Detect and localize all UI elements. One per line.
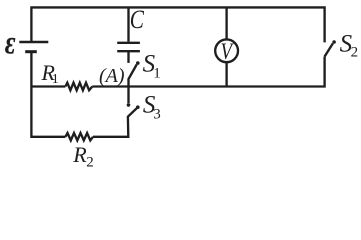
svg-text:Ɛ: Ɛ	[5, 33, 16, 59]
voltmeter V circle	[215, 39, 238, 62]
svg-text:1: 1	[153, 66, 161, 82]
resistor R2 zigzag	[65, 133, 93, 140]
switch S2 arm	[325, 43, 333, 56]
svg-text:(A): (A)	[99, 65, 125, 87]
svg-text:3: 3	[153, 106, 161, 122]
wire right rail lower (S2 to middle rail) + middle rail right segment	[92, 57, 324, 87]
switch S1 arm and wire down to S3 fixed contact	[129, 65, 137, 104]
switch S2 contact dot	[332, 40, 336, 44]
battery E short plate	[25, 50, 37, 53]
resistor R1 zigzag	[65, 83, 92, 91]
wire voltmeter branch top stub	[225, 7, 227, 39]
switch S3 fixed contact dot	[127, 103, 131, 107]
capacitor C bottom plate	[117, 50, 140, 52]
svg-text:R: R	[72, 142, 87, 167]
wire voltmeter branch bottom stub	[225, 62, 227, 86]
wire middle rail left segment	[31, 85, 65, 87]
switch S3 arm, wire to bottom rail + bottom rail right segment	[93, 108, 137, 137]
switch S1 contact dot	[136, 61, 140, 65]
svg-text:1: 1	[52, 72, 59, 87]
wire left rail lower + bottom rail left segment	[31, 52, 65, 137]
switch S3 arm tip dot	[136, 105, 140, 109]
wire capacitor bottom stub to switch S1	[127, 51, 129, 63]
capacitor C top plate	[117, 42, 140, 44]
battery E long plate	[19, 41, 48, 43]
svg-text:2: 2	[86, 155, 94, 167]
wire capacitor branch top stub	[127, 7, 129, 41]
wire left rail upper + top rail + right rail upper	[31, 7, 324, 42]
svg-text:C: C	[130, 6, 145, 35]
svg-text:2: 2	[351, 44, 359, 60]
